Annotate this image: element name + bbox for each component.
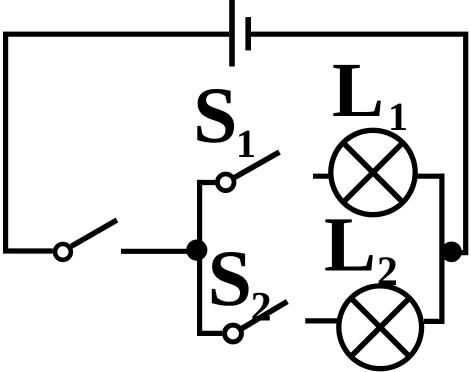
lamp L1 cross line 1 <box>343 143 403 203</box>
wire: S2 blade side to lamp L2 <box>305 318 337 323</box>
wire: right branch vertical (L1 to L2) <box>439 174 444 324</box>
label L1 subscript 1 <box>391 104 406 130</box>
lamp L1 circle <box>331 130 415 214</box>
battery B1 short plate <box>245 17 251 50</box>
switch S1 blade <box>235 152 280 177</box>
lamp L2 cross line 1 <box>351 298 410 357</box>
wire: battery negative to top-left corner, down left side, to switch S <box>6 34 230 251</box>
label S1 letter S <box>197 89 234 143</box>
label L2 letter L <box>325 219 373 270</box>
wire: branch vertical from S1 pivot down to S2 pivot <box>197 180 202 336</box>
label L1 letter L <box>333 65 381 116</box>
lamp L1 cross line 2 <box>343 143 403 203</box>
junction node A (dot) <box>186 240 207 261</box>
wire: S1 blade side to lamp L1 <box>313 174 330 179</box>
label S2 subscript 2 <box>252 293 269 321</box>
switch S (left) pivot circle <box>55 244 71 260</box>
switch S2 pivot circle <box>225 325 242 342</box>
lamp L2 circle <box>339 286 422 369</box>
wire: battery positive to top-right corner, down right side, to junction dot <box>251 34 466 252</box>
junction node B (dot) <box>441 242 462 263</box>
wire: lamp L1 right terminal to right branch vertical <box>416 174 445 179</box>
label S2 letter S <box>212 252 249 306</box>
wire: stub to S1 pivot <box>197 180 216 185</box>
switch S1 pivot circle <box>217 174 234 191</box>
switch S2 blade <box>242 302 288 329</box>
wire: lamp L2 right terminal to right branch vertical <box>424 319 445 324</box>
label S1 subscript 1 <box>239 131 254 157</box>
label L2 subscript 2 <box>379 257 396 285</box>
battery B1 long plate <box>229 0 235 67</box>
wire: switch S to junction node A <box>121 249 197 254</box>
switch S (left) blade <box>71 220 117 246</box>
lamp L2 cross line 2 <box>351 298 410 357</box>
wire: stub to S2 pivot <box>197 331 222 336</box>
